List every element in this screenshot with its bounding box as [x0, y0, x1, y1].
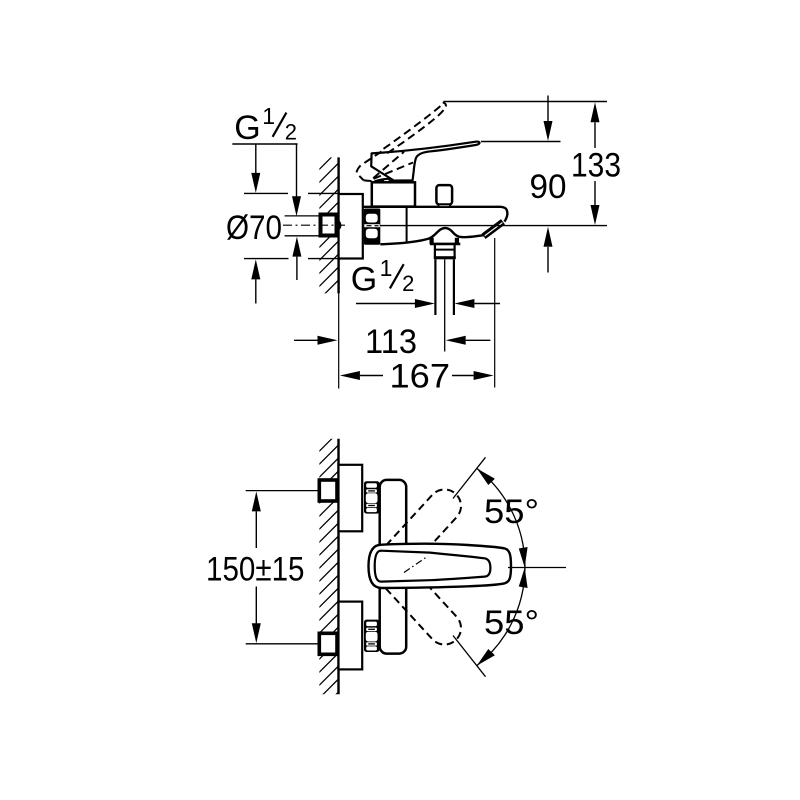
svg-text:1: 1: [380, 255, 393, 281]
svg-text:2: 2: [402, 271, 414, 296]
svg-text:133: 133: [571, 147, 621, 185]
svg-text:90: 90: [530, 168, 567, 206]
svg-text:113: 113: [365, 323, 417, 361]
svg-text:G: G: [351, 260, 377, 298]
svg-text:55°: 55°: [484, 604, 539, 642]
svg-text:2: 2: [285, 119, 297, 144]
svg-text:G: G: [234, 109, 260, 147]
svg-text:1: 1: [262, 103, 275, 129]
svg-text:Ø70: Ø70: [226, 209, 282, 247]
svg-text:55°: 55°: [484, 493, 539, 531]
svg-text:167: 167: [390, 358, 451, 396]
svg-text:150±15: 150±15: [206, 551, 305, 589]
